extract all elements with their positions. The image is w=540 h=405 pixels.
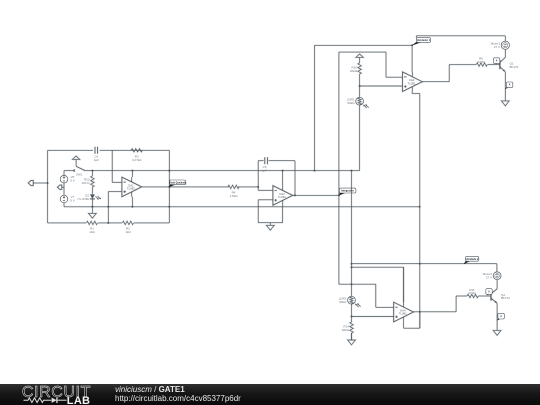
capacitor C4 [94,147,96,154]
svg-text:27 V: 27 V [486,275,492,279]
node junction integrator output [338,194,340,196]
resistor R11 [467,294,478,297]
current badge Q2 collector [487,294,489,296]
wire R14 to ground [351,333,353,340]
svg-text:1kΩ: 1kΩ [125,230,131,234]
wire V7 to ground rail [63,203,65,207]
+V supply arrow above R10 [356,54,363,57]
wire OA4 V+ feed [352,266,404,268]
wire V6 to V7 [63,183,65,195]
wire square-wave net top to OA3 inverting input [339,51,386,53]
resistor R6 [476,63,487,66]
wire left outer vertical [47,150,49,223]
wire R11 to Q2 base [478,295,491,297]
wire R4 to OA2 inverting input [257,187,259,190]
svg-text:LTL-307EE: LTL-307EE [78,199,90,201]
wire OA2 output [293,194,339,196]
wire R6 to Q1 base [488,64,500,66]
ground symbol OA2 [269,223,271,226]
svg-text:TL081: TL081 [399,312,407,316]
wire +9V drop to bottom-right block [351,171,353,297]
OA2 V+ power pin [282,171,284,186]
svg-text:BF170: BF170 [501,296,510,300]
svg-text:D2: D2 [85,194,89,198]
wire C5 left leg [257,161,259,187]
flag Vendedor1 [412,41,422,45]
wire long vertical net (OA3 V- / ground rail end) [419,94,421,329]
svg-text:TL081: TL081 [127,187,135,191]
ground symbol under LED [91,207,93,214]
wire Q1 emitter down [504,72,506,100]
wire square-wave net vertical [338,52,340,284]
svg-text:Onda Quadrada: Onda Quadrada [169,182,187,184]
svg-text:9 V: 9 V [70,179,75,183]
flag Integrador [339,192,346,196]
motor Motor1 [501,41,509,49]
node junction output/feedback [168,186,170,188]
+V supply arrow above SW1 [72,156,79,159]
svg-text:LAB: LAB [67,395,91,405]
footer title text [115,385,241,403]
wire junction to OA4 plus input [352,316,394,318]
photoresistor LDR2 [348,296,356,304]
motor Motor2 [493,272,501,280]
ground symbol Q2 [496,329,498,332]
OA3 V- power pin step [411,92,413,94]
op-amp OA2 [273,186,293,206]
wire feedback vertical to OA1 inverting input [111,150,113,182]
svg-text:90kΩ: 90kΩ [350,69,358,73]
OA1 V- power pin [131,197,133,207]
resistor R10 [358,63,361,74]
OA2 V- power pin [282,205,284,223]
svg-text:90kΩ: 90kΩ [347,101,355,105]
LED D2 [90,194,95,198]
op-amp OA3 [403,72,423,92]
wire OA3 output to Q1 base [422,81,449,83]
wire motor2 to Q2 collector [496,280,498,289]
flag Umidade2 [464,260,471,264]
OA4 V+ power pin [403,267,405,302]
wire +9V riser to top-right block [314,45,316,170]
resistor R1 [87,221,98,224]
svg-text:TL081: TL081 [278,195,286,199]
svg-text:1kΩ: 1kΩ [89,230,95,234]
flag Onda Quadrada [169,183,176,187]
wire bottom (R1 R2 divider) [48,222,86,224]
current badge Q1 collector [494,63,496,64]
current badge Q2 emitter [497,318,500,320]
transistor Q2 [490,291,492,300]
OA1 V+ power pin [131,171,133,178]
svg-text:100 Ω: 100 Ω [81,181,90,185]
resistor R14 [350,322,353,333]
wire OA1 output to R4 and integrator [142,186,229,188]
wire R10 to LDR1 and OA3 plus input [359,74,361,97]
wire feedback right vertical [168,150,170,223]
node junction LDR2 / OA4 plus [351,316,353,318]
wire Q2 emitter down [496,303,498,330]
svg-text:Vendedor 1: Vendedor 1 [417,39,431,42]
voltage source V7 [60,195,68,203]
CircuitLab logo [0,384,100,405]
wire LDR1 down to +9V rail end [359,105,361,171]
svg-text:1µF: 1µF [94,158,99,162]
wire motor2 feed [352,263,497,265]
transistor Q1 [499,60,501,69]
svg-text:270Ω: 270Ω [468,291,476,295]
svg-text:9 V: 9 V [70,198,75,202]
op-amp OA1 [122,177,142,197]
node junction LED/ground rail [91,206,93,208]
wire square-wave net bottom to OA4 inverting input [339,283,376,285]
OA3 V+ power pin [411,45,413,72]
resistor R22 [91,176,94,187]
wire port P1 to left rail [33,182,48,184]
svg-text:3.27kΩ: 3.27kΩ [132,158,142,162]
OA4 V- power pin loop [403,322,405,328]
wire LDR2 to junction [351,304,353,322]
svg-text:SW1: SW1 [76,173,83,177]
wire C5 right leg down to OA2 output [294,161,296,196]
wire R22 to LED D2 [91,187,93,194]
resistor R2 [123,221,134,224]
svg-text:90kΩ: 90kΩ [339,300,347,304]
capacitor C5 feedback [258,160,263,162]
svg-text:BF170: BF170 [510,65,519,69]
voltage source V6 [63,171,65,176]
switch SW1 [73,169,75,172]
svg-text:90kΩ: 90kΩ [342,328,350,332]
wire top feedback (through C4, R3) [48,149,93,151]
ground symbol Q1 [504,99,506,102]
wire +9V rail from V6 to LDR1 column [64,170,74,172]
wire OA2 non-inverting input to ground [258,199,273,201]
svg-text:4.5kΩ: 4.5kΩ [230,194,239,198]
node junction R22/rail [91,170,93,172]
op-amp OA4 [394,302,414,322]
port P1 (left input port) [28,180,33,185]
wire OA1 non-inverting input leg [108,191,122,193]
svg-text:270Ω: 270Ω [477,60,485,64]
wire +9V top feed [315,44,413,46]
svg-text:1µF: 1µF [262,168,267,172]
wire OA4 output to Q2 base [414,311,457,313]
current badge Q1 emitter [505,87,509,89]
wire motor1 to Q1 collector [504,49,506,57]
resistor R4 [228,185,239,188]
photoresistor LDR1 [356,97,364,105]
svg-text:Umidade 2: Umidade 2 [466,258,479,261]
ground symbol R14 [351,333,353,340]
svg-text:TL081: TL081 [408,81,416,85]
wire LED to ground rail [91,199,93,207]
wire R22 from +9V rail [91,171,93,176]
wire motor1 top feed [416,35,505,37]
port P2 (mid port) [57,185,61,189]
node junction at left rail / P1 [47,182,49,184]
svg-text:27 V: 27 V [494,45,500,49]
resistor R3 [131,149,142,152]
